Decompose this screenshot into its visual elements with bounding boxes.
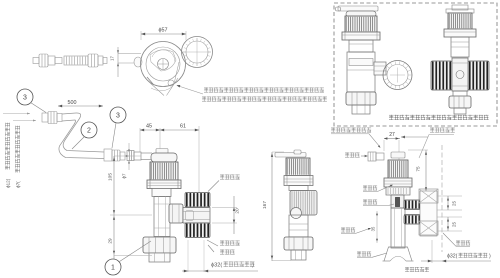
svg-text:20: 20 (235, 208, 241, 214)
valve head cap (156, 149, 168, 154)
bottom hex nut (143, 237, 176, 253)
boxed right view top (452, 5, 468, 10)
label spout outlet (357, 252, 371, 257)
dimension 20 (212, 207, 237, 209)
hose tube (62, 113, 104, 152)
svg-text:61: 61 (180, 124, 186, 130)
boxed left view lever (338, 6, 378, 11)
side view nut (284, 237, 313, 250)
coupling bottom wheel (185, 223, 210, 238)
boxed right view neck (451, 37, 469, 57)
dimension 25 upper (437, 195, 462, 197)
svg-text:75: 75 (416, 166, 421, 172)
tank tube (420, 191, 437, 236)
leader to note text (177, 86, 203, 95)
svg-text:2: 2 (87, 127, 91, 134)
svg-text:): ) (489, 254, 491, 260)
installed valve flange (384, 178, 412, 187)
svg-text:ϕ7: ϕ7 (122, 173, 127, 178)
dimension 25 lower (437, 216, 462, 218)
hose right fitting (104, 149, 125, 161)
installed valve cap (391, 152, 405, 158)
hose assembly top-left (33, 54, 107, 67)
boxed left view ring (383, 61, 412, 90)
valve flange (147, 180, 181, 189)
side view flange (284, 176, 313, 186)
note text line2 (202, 97, 327, 102)
hose left fitting (42, 112, 62, 124)
boxed right view center block (452, 58, 468, 91)
svg-text:500: 500 (68, 100, 77, 106)
label phi16 hole bottom (207, 240, 218, 246)
label feed pipe right (456, 241, 470, 246)
svg-text:27: 27 (389, 132, 395, 138)
installed inlet fitting (368, 152, 376, 161)
svg-text:ϕ57: ϕ57 (158, 28, 167, 34)
balloon 1 (105, 259, 121, 275)
dimension 75 (425, 150, 427, 192)
label adjust water level (331, 128, 371, 133)
svg-text:3: 3 (23, 94, 27, 101)
boxed left view nut (346, 92, 376, 105)
label stop valve (363, 200, 377, 205)
dimension 105 and 29 column (113, 156, 115, 259)
dimension 17 (117, 47, 119, 77)
dimension 167 (271, 152, 273, 261)
top view swing sector (148, 78, 178, 96)
spout bell (384, 247, 412, 261)
boxed right view bottom (453, 91, 467, 97)
boxed right view cap (448, 13, 472, 29)
union clamp nut (169, 204, 183, 223)
balloon 3 left (17, 89, 33, 105)
dimension 45-61 (140, 129, 199, 131)
svg-text:105: 105 (108, 173, 114, 181)
box caption text (389, 115, 489, 120)
inlet arm (127, 151, 152, 161)
balloon 2 (81, 122, 97, 138)
dimension phi57 (140, 31, 142, 40)
label check valve (363, 186, 377, 191)
stop valve handle (391, 195, 404, 208)
boxed left view flange (342, 32, 380, 40)
installed pipe (391, 208, 405, 248)
label spout clearance (401, 136, 405, 139)
boxed left view body (349, 40, 373, 52)
side view cap (286, 158, 310, 176)
side view coupling drum (290, 191, 317, 216)
center line dashed (441, 145, 443, 252)
label supply center bottom (405, 267, 429, 272)
label phi16 hole top (208, 181, 219, 192)
svg-text:ϕ32(: ϕ32( (211, 263, 222, 269)
balloon 3 right (110, 107, 126, 123)
side view lever (275, 153, 306, 158)
svg-text:25: 25 (452, 222, 457, 227)
swing arm line (174, 62, 179, 84)
dashed option box (334, 3, 497, 126)
dimension phi7 inlet (128, 143, 130, 151)
svg-text:45: 45 (146, 124, 152, 130)
side coupling small (404, 209, 421, 211)
hose diameter labels (3, 113, 30, 115)
label feed pipe installed (341, 228, 355, 233)
label feed pipe (208, 245, 214, 252)
check valve band (386, 187, 410, 195)
dimension phi32 mounting hole (187, 240, 189, 272)
top view inlet stub (134, 57, 142, 67)
vertical dim small (376, 211, 378, 243)
coupling top wheel (185, 193, 210, 208)
svg-text:17: 17 (110, 56, 115, 61)
note text line1 (204, 88, 324, 93)
top view small circle (coupling) (182, 37, 213, 68)
svg-text:167: 167 (262, 201, 268, 209)
boxed right view left wheel (431, 61, 452, 90)
boxed left view side port (374, 62, 386, 75)
side view lower body (289, 215, 308, 237)
label supply center with arrow (345, 153, 360, 158)
boxed right view right wheel (468, 61, 489, 90)
svg-text:25: 25 (452, 201, 457, 206)
valve body pipe (152, 189, 171, 197)
side view body (289, 186, 308, 191)
boxed left view cap (346, 11, 376, 17)
svg-text:ϕ7(: ϕ7( (16, 181, 21, 188)
svg-text:): ) (252, 263, 254, 269)
boxed right view flange (444, 29, 476, 37)
svg-text:29: 29 (108, 238, 114, 244)
dimension 500 (58, 105, 103, 107)
svg-text:ϕ12(: ϕ12( (6, 178, 11, 188)
svg-text:35: 35 (371, 226, 376, 231)
coupling body (183, 208, 210, 224)
svg-text:1: 1 (111, 264, 115, 271)
top view main circle (141, 42, 186, 87)
svg-text:ϕ32(: ϕ32( (447, 254, 458, 260)
svg-text:3: 3 (116, 112, 120, 119)
